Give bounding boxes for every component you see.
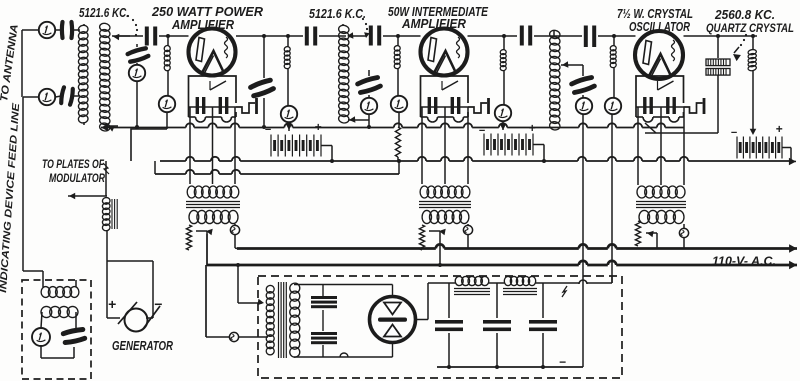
svg-text:−: −	[265, 124, 272, 136]
svg-text:7½ W. CRYSTAL: 7½ W. CRYSTAL	[617, 7, 693, 21]
svg-text:−: −	[731, 127, 738, 139]
svg-text:5121.6 KC.: 5121.6 KC.	[79, 6, 129, 20]
svg-text:+: +	[108, 296, 116, 312]
svg-text:TO PLATES OF: TO PLATES OF	[42, 159, 105, 171]
svg-text:−: −	[559, 355, 566, 369]
svg-text:QUARTZ CRYSTAL: QUARTZ CRYSTAL	[706, 21, 794, 35]
svg-text:MODULATOR: MODULATOR	[49, 173, 106, 185]
svg-text:+: +	[775, 122, 782, 136]
svg-text:2560.8 KC.: 2560.8 KC.	[714, 8, 775, 22]
svg-text:GENERATOR: GENERATOR	[112, 339, 173, 353]
svg-text:−: −	[154, 296, 162, 312]
svg-text:250 WATT POWER: 250 WATT POWER	[151, 5, 263, 19]
svg-text:5121.6 K.C.: 5121.6 K.C.	[309, 7, 366, 21]
